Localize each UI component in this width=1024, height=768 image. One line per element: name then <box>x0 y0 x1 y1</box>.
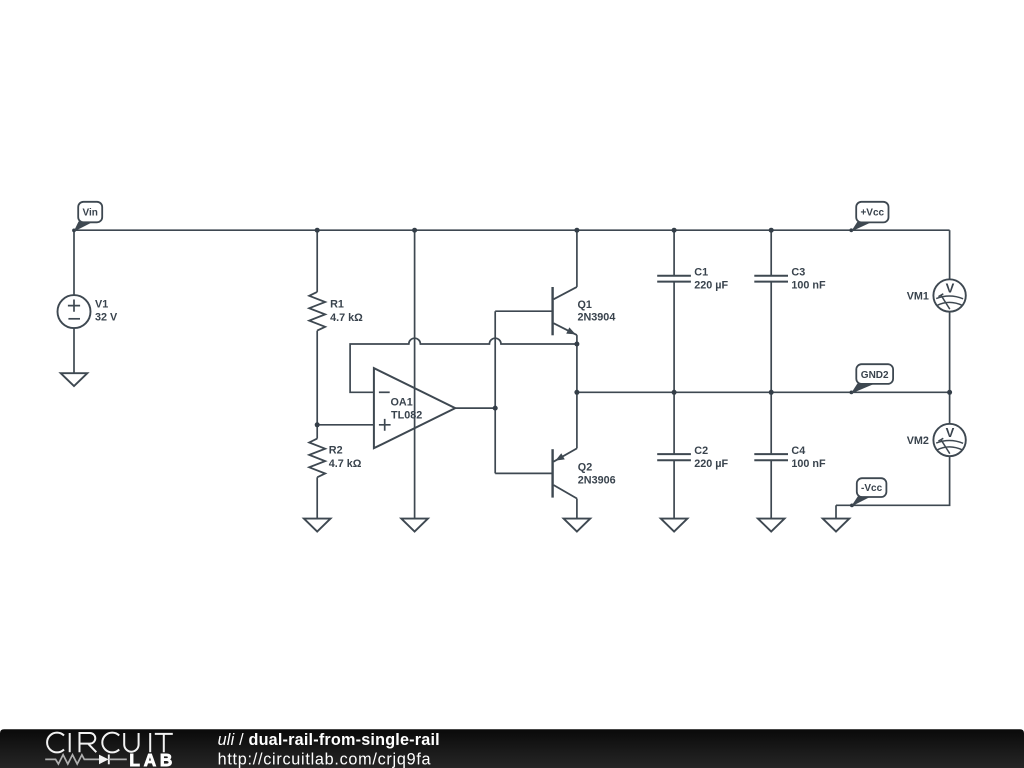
wire GND2 node to VM2 <box>949 392 951 424</box>
svg-text:C2: C2 <box>694 445 708 457</box>
wire R1 bottom to node <box>316 331 318 425</box>
svg-text:-Vcc: -Vcc <box>861 483 883 494</box>
wire C4 top lead <box>770 392 772 454</box>
wire C2 top lead <box>673 392 675 454</box>
node dots <box>72 228 952 508</box>
transistor Q2 emitter arrow <box>554 453 565 463</box>
component labels <box>95 266 955 486</box>
svg-text:220 µF: 220 µF <box>694 458 728 470</box>
wire op-amp plus input <box>317 424 374 426</box>
svg-text:Vin: Vin <box>83 208 98 219</box>
wire C1 top lead <box>673 230 675 276</box>
wire Q1 emitter to node <box>576 335 578 344</box>
svg-text:4.7 kΩ: 4.7 kΩ <box>329 458 362 470</box>
wire right rail to VM1 <box>949 230 951 279</box>
svg-text:R2: R2 <box>329 445 343 457</box>
wire op-amp output <box>455 407 495 409</box>
ground (Q2) <box>564 519 591 532</box>
flag GND2 <box>851 364 893 394</box>
wire R1 top lead <box>316 230 318 292</box>
ground (V1) <box>61 373 88 386</box>
voltmeter VM1 <box>933 279 965 311</box>
wire base bus vertical <box>494 311 496 473</box>
svg-text:OA1: OA1 <box>391 397 413 409</box>
capacitor C2 plates <box>657 454 691 460</box>
ground (R2) <box>304 519 331 532</box>
ground (C4) <box>758 519 785 532</box>
svg-text:VM1: VM1 <box>907 290 929 302</box>
transistor Q1 body <box>553 287 577 335</box>
ground (C2) <box>661 519 688 532</box>
logo resistor-diode squiggle <box>45 755 127 765</box>
capacitor C4 plates <box>754 454 788 460</box>
svg-text:C1: C1 <box>694 266 708 278</box>
logo CIRCUIT letters <box>47 733 173 753</box>
wire emitters junction vertical <box>576 344 578 392</box>
svg-text:V1: V1 <box>95 299 108 311</box>
wire C1 bottom lead <box>673 282 675 393</box>
svg-text:TL082: TL082 <box>391 410 422 422</box>
wire C3 top lead <box>770 230 772 276</box>
wire C3 bottom lead <box>770 282 772 393</box>
wire -Vcc ground lead <box>835 505 837 518</box>
svg-text:100 nF: 100 nF <box>791 280 826 292</box>
wire op-amp power rail through <box>414 230 416 518</box>
voltmeter VM2 <box>933 424 965 456</box>
wire Q2 collector lead <box>576 499 578 519</box>
wire node to Q2 emitter <box>576 392 578 448</box>
svg-text:Q2: Q2 <box>578 462 592 474</box>
svg-text:+Vcc: +Vcc <box>860 207 884 218</box>
svg-text:2N3906: 2N3906 <box>578 475 616 487</box>
resistor R2 <box>309 439 325 478</box>
transistor Q1 emitter arrow <box>566 327 577 337</box>
flag Vin <box>74 202 103 232</box>
wire V1 top lead <box>73 230 75 295</box>
resistor R1 <box>309 292 325 331</box>
ground (-Vcc) <box>823 519 850 532</box>
wire R2 top lead <box>316 425 318 439</box>
transistor Q2 body <box>553 448 577 498</box>
wire VM1 to GND2 node <box>949 312 951 393</box>
svg-text:VM2: VM2 <box>907 435 929 447</box>
wire C4 bottom lead <box>770 460 772 518</box>
capacitor C3 plates <box>754 276 788 282</box>
wire Q1 base <box>495 310 552 312</box>
svg-text:Q1: Q1 <box>578 299 592 311</box>
svg-text:220 µF: 220 µF <box>694 280 728 292</box>
wire top rail Vin/+Vcc <box>74 229 950 231</box>
svg-text:2N3904: 2N3904 <box>578 312 616 324</box>
svg-text:V: V <box>946 425 955 440</box>
op-amp OA1 triangle <box>374 368 455 448</box>
svg-text:V: V <box>946 281 955 296</box>
wire VM2 to -Vcc corner <box>836 456 950 505</box>
svg-text:100 nF: 100 nF <box>791 458 826 470</box>
flag +Vcc <box>851 202 889 232</box>
svg-text:http://circuitlab.com/crjq9fa: http://circuitlab.com/crjq9fa <box>218 750 432 768</box>
svg-text:GND2: GND2 <box>861 370 889 381</box>
wire Q1 collector <box>576 230 578 287</box>
flag -Vcc <box>851 478 886 506</box>
svg-text:C3: C3 <box>791 266 805 278</box>
op-amp minus sign <box>379 391 390 393</box>
svg-text:4.7 kΩ: 4.7 kΩ <box>330 312 363 324</box>
wire feedback minus input loop <box>350 338 577 392</box>
wire V1 bottom lead <box>73 328 75 373</box>
svg-text:R1: R1 <box>330 299 344 311</box>
wire R2 bottom lead <box>316 477 318 518</box>
svg-text:LAB: LAB <box>129 750 176 768</box>
ground (op-amp) <box>401 519 428 532</box>
svg-text:uli / dual-rail-from-single-ra: uli / dual-rail-from-single-rail <box>218 731 440 749</box>
wire C2 bottom lead <box>673 460 675 518</box>
svg-text:C4: C4 <box>791 445 805 457</box>
op-amp plus sign <box>379 419 391 431</box>
capacitor C1 plates <box>657 276 691 282</box>
wire mid rail GND2 <box>577 391 950 393</box>
voltage source V1 <box>58 295 91 328</box>
footer bar <box>0 729 1024 768</box>
svg-text:32 V: 32 V <box>95 312 118 324</box>
wire Q2 base <box>495 472 552 474</box>
